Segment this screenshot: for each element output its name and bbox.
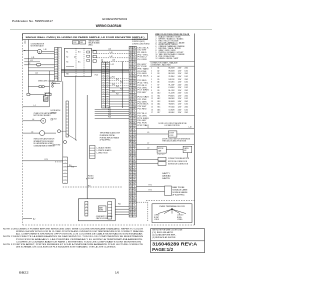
svg-text:BK: BK — [134, 122, 136, 124]
svg-text:12: 12 — [156, 58, 158, 60]
svg-text:19: 19 — [130, 186, 132, 188]
svg-text:120V: 120V — [178, 98, 182, 100]
svg-text:BU: BU — [134, 57, 136, 59]
svg-text:BN: BN — [134, 118, 136, 120]
svg-text:P3: P3 — [130, 122, 132, 124]
svg-text:16: 16 — [151, 109, 153, 111]
svg-text:RD: RD — [107, 77, 109, 79]
svg-text:WH: WH — [107, 102, 109, 104]
svg-text:HL-250F: HL-250F — [169, 84, 175, 86]
svg-text:12: 12 — [130, 64, 132, 66]
svg-text:BR-3000W: BR-3000W — [169, 70, 175, 72]
svg-text:L-4 RED / ROJO: L-4 RED / ROJO — [97, 153, 109, 155]
svg-text:RB: RB — [66, 74, 68, 76]
svg-text:L2 BLK: L2 BLK — [154, 219, 159, 221]
svg-text:SEE NOTE FOR WIRE COLOR CODE: SEE NOTE FOR WIRE COLOR CODE — [152, 230, 182, 232]
svg-text:P-36: P-36 — [112, 91, 115, 93]
svg-text:GREEN / VERDE / VERT: GREEN / VERDE / VERT — [159, 58, 179, 60]
svg-text:YL: YL — [134, 186, 136, 188]
svg-text:WH: WH — [133, 87, 136, 89]
svg-text:L-50: L-50 — [108, 48, 111, 50]
svg-text:P-6: P-6 — [71, 167, 74, 169]
svg-text:B11: B11 — [158, 95, 161, 97]
svg-text:WIRING DIAGRAM: WIRING DIAGRAM — [96, 24, 122, 28]
svg-text:YL: YL — [134, 205, 136, 207]
svg-text:19: 19 — [130, 172, 132, 174]
svg-text:B1: B1 — [158, 68, 160, 70]
svg-text:BK: BK — [134, 160, 136, 162]
svg-text:44: 44 — [130, 111, 132, 113]
svg-text:DLM-120V: DLM-120V — [169, 79, 175, 81]
svg-text:L-17: L-17 — [37, 66, 40, 68]
svg-text:B2: B2 — [130, 169, 132, 171]
svg-text:15: 15 — [151, 106, 153, 108]
svg-text:120V: 120V — [178, 90, 182, 92]
svg-text:81: 81 — [130, 188, 132, 190]
svg-text:BK: BK — [134, 104, 136, 106]
svg-text:13: 13 — [151, 101, 153, 103]
svg-text:SB-3400W: SB-3400W — [169, 101, 175, 103]
svg-text:L-61: L-61 — [110, 52, 113, 54]
svg-text:(IF EQUIPPED): (IF EQUIPPED) — [100, 140, 111, 142]
svg-text:MOTEUR DE CONVECTION: MOTEUR DE CONVECTION — [168, 164, 189, 166]
svg-text:L1 RED: L1 RED — [154, 215, 160, 217]
svg-text:P-34: P-34 — [108, 112, 111, 114]
svg-text:CV-350W: CV-350W — [169, 109, 176, 111]
svg-text:LOCKED POSITION: LOCKED POSITION — [165, 125, 181, 127]
svg-text:BN: BN — [134, 155, 136, 157]
svg-text:P-31: P-31 — [116, 79, 119, 81]
svg-text:WH: WH — [133, 181, 136, 183]
svg-text:P4 ORN: P4 ORN — [138, 59, 147, 61]
svg-text:12: 12 — [130, 205, 132, 207]
svg-text:WH: WH — [107, 75, 109, 77]
svg-text:CONTROL DEL HORNO: CONTROL DEL HORNO — [132, 43, 150, 45]
svg-text:L-5: L-5 — [147, 132, 149, 134]
svg-text:N WHT: N WHT — [154, 217, 159, 219]
svg-text:P24 WHT: P24 WHT — [138, 106, 147, 108]
svg-text:P-9: P-9 — [69, 165, 72, 167]
svg-text:WIRING SHOWN WITH DOOR IN CLOS: WIRING SHOWN WITH DOOR IN CLOSED POSITIO… — [16, 230, 145, 233]
svg-text:81: 81 — [130, 132, 132, 134]
svg-text:P-61: P-61 — [118, 203, 121, 205]
svg-text:P15 BLU: P15 BLU — [138, 85, 147, 87]
svg-text:DES SCHEMAS. LES COULEURS DE F: DES SCHEMAS. LES COULEURS DE FILS INDIQU… — [16, 246, 117, 249]
svg-text:YL: YL — [134, 92, 136, 94]
svg-text:L-7: L-7 — [147, 143, 149, 145]
svg-text:P2 YEL: P2 YEL — [138, 54, 150, 56]
svg-text:L-12: L-12 — [35, 73, 38, 75]
svg-text:WH: WH — [133, 49, 136, 51]
svg-text:81: 81 — [130, 89, 132, 91]
svg-text:P18 GRY: P18 GRY — [138, 92, 147, 94]
svg-text:81: 81 — [130, 104, 132, 106]
svg-text:P3 BLU: P3 BLU — [138, 57, 147, 59]
svg-text:P16 ORN: P16 ORN — [138, 87, 147, 89]
svg-text:YL: YL — [134, 129, 136, 131]
svg-text:P-9 WHT: P-9 WHT — [88, 178, 94, 180]
svg-text:P3: P3 — [130, 179, 132, 181]
svg-text:P-35: P-35 — [120, 89, 123, 91]
svg-text:B2: B2 — [130, 183, 132, 185]
svg-text:RD: RD — [107, 95, 109, 97]
svg-text:17: 17 — [151, 112, 153, 114]
svg-text:240V: 240V — [178, 101, 182, 103]
svg-text:81: 81 — [130, 146, 132, 148]
svg-text:12: 12 — [130, 148, 132, 150]
svg-text:BN: BN — [134, 174, 136, 176]
svg-text:CONTROL (EOC): CONTROL (EOC) — [132, 41, 145, 43]
svg-text:P28 ORN: P28 ORN — [138, 115, 147, 117]
svg-text:P10 GRN: P10 GRN — [138, 73, 147, 75]
svg-text:P-37: P-37 — [116, 93, 119, 95]
svg-text:P21 PNK: P21 PNK — [138, 99, 147, 101]
svg-text:L-31: L-31 — [31, 57, 34, 59]
svg-text:MOTOR: MOTOR — [158, 148, 163, 150]
svg-text:120V: 120V — [178, 70, 182, 72]
svg-text:RD: RD — [107, 104, 109, 106]
svg-text:WH: WH — [133, 162, 136, 164]
svg-text:WH: WH — [133, 143, 136, 145]
svg-text:19: 19 — [130, 129, 132, 131]
svg-text:BN: BN — [134, 136, 136, 138]
svg-text:44: 44 — [130, 54, 132, 56]
svg-text:SINGLE WALL OVEN ( EL HORNO DE: SINGLE WALL OVEN ( EL HORNO DE PARED SIM… — [26, 36, 145, 39]
svg-text:ELECTRONIC OVEN: ELECTRONIC OVEN — [132, 39, 148, 41]
svg-text:B2: B2 — [130, 141, 132, 143]
svg-text:12: 12 — [130, 49, 132, 51]
svg-text:120V: 120V — [178, 73, 182, 75]
svg-text:BK: BK — [134, 198, 136, 200]
svg-text:ALL COMPONENTS SHOWN IN OFF PO: ALL COMPONENTS SHOWN IN OFF POSITION. LO… — [16, 233, 144, 236]
svg-text:PAGE:1/2: PAGE:1/2 — [152, 247, 174, 252]
svg-text:44: 44 — [130, 167, 132, 169]
svg-text:B13: B13 — [158, 101, 161, 103]
svg-text:P31 PUR: P31 PUR — [138, 123, 147, 125]
svg-text:BU: BU — [134, 169, 136, 171]
svg-text:BK-2500W: BK-2500W — [169, 68, 175, 70]
svg-text:B2: B2 — [130, 85, 132, 87]
svg-text:L-63: L-63 — [112, 60, 115, 62]
svg-text:19: 19 — [130, 101, 132, 103]
svg-text:14: 14 — [151, 104, 153, 106]
svg-text:P-34: P-34 — [116, 86, 119, 88]
svg-text:81: 81 — [130, 118, 132, 120]
svg-text:ML-120V: ML-120V — [169, 90, 175, 92]
svg-text:BU: BU — [107, 98, 109, 100]
svg-text:B2: B2 — [130, 212, 132, 214]
svg-text:DK2 WHT: DK2 WHT — [138, 50, 147, 52]
svg-text:P29 BRN: P29 BRN — [138, 118, 149, 120]
svg-text:K2: K2 — [66, 57, 68, 59]
svg-text:K1: K1 — [66, 52, 68, 54]
svg-text:HORN: HORN — [99, 210, 103, 212]
svg-text:240V: 240V — [178, 84, 182, 86]
svg-text:DOOR LOCK SWITCH SHOWN IN: DOOR LOCK SWITCH SHOWN IN — [162, 138, 190, 140]
svg-text:GD-BLK: GD-BLK — [169, 112, 175, 114]
svg-text:L-10: L-10 — [189, 127, 192, 129]
svg-text:L-1: L-1 — [147, 127, 149, 129]
svg-text:BK: BK — [134, 141, 136, 143]
svg-text:BU: BU — [134, 75, 136, 77]
svg-text:WH: WH — [107, 93, 109, 95]
svg-text:BK: BK — [107, 81, 109, 83]
svg-text:44: 44 — [130, 125, 132, 127]
svg-text:L2 NEG: L2 NEG — [177, 219, 183, 221]
svg-text:P7 PUR: P7 PUR — [138, 66, 147, 68]
svg-text:NOTE 1 DISCONNECT POWER BEFOR: NOTE 1 DISCONNECT POWER BEFORE SERVICING… — [3, 227, 144, 230]
svg-text:10: 10 — [151, 93, 153, 95]
svg-text:P-71: P-71 — [149, 185, 152, 187]
svg-text:CF-2BLK: CF-2BLK — [169, 76, 175, 78]
svg-text:12: 12 — [130, 106, 132, 108]
svg-text:P3: P3 — [130, 80, 132, 82]
svg-text:L-4: L-4 — [32, 119, 34, 121]
svg-text:120V: 120V — [178, 95, 182, 97]
svg-text:B15: B15 — [158, 106, 161, 108]
svg-text:SWITCH: SWITCH — [51, 112, 57, 114]
svg-text:NOTE 2 DESCONECTE LA ENERGIA: NOTE 2 DESCONECTE LA ENERGIA ANTES DE DA… — [3, 235, 144, 238]
svg-text:P1 RED: P1 RED — [138, 52, 147, 54]
svg-text:P-38: P-38 — [108, 117, 111, 119]
svg-text:WH: WH — [133, 125, 136, 127]
svg-text:GY: GY — [133, 139, 135, 141]
svg-text:L-52: L-52 — [111, 64, 114, 66]
svg-text:GY: GY — [133, 64, 135, 66]
svg-text:YL: YL — [134, 148, 136, 150]
svg-text:81: 81 — [130, 75, 132, 77]
svg-text:P-36: P-36 — [108, 114, 111, 116]
svg-text:12: 12 — [130, 134, 132, 136]
svg-text:BU: BU — [134, 94, 136, 96]
svg-text:P-32: P-32 — [108, 108, 111, 110]
svg-text:P23 BLK: P23 BLK — [138, 104, 149, 106]
svg-text:44: 44 — [130, 82, 132, 84]
svg-text:DK1 BLK: DK1 BLK — [138, 47, 149, 49]
svg-text:GY: GY — [133, 176, 135, 178]
svg-text:P9 PNK: P9 PNK — [138, 71, 147, 73]
svg-text:B3: B3 — [158, 73, 160, 75]
svg-text:P3: P3 — [130, 207, 132, 209]
svg-text:BU: BU — [134, 113, 136, 115]
svg-text:OVEN TERMINAL BLOCK: OVEN TERMINAL BLOCK — [159, 205, 186, 208]
svg-text:44: 44 — [130, 139, 132, 141]
svg-text:INTERRUPTOR DE SEGURO: INTERRUPTOR DE SEGURO — [34, 141, 55, 143]
svg-text:L-30: L-30 — [44, 49, 47, 51]
svg-text:P-33: P-33 — [112, 84, 115, 86]
svg-text:PS-BLK: PS-BLK — [169, 95, 175, 97]
svg-text:RD: RD — [107, 86, 109, 88]
svg-text:BK: BK — [107, 91, 109, 93]
svg-text:BK: BK — [134, 85, 136, 87]
svg-text:44: 44 — [130, 68, 132, 70]
svg-text:B2: B2 — [130, 71, 132, 73]
svg-text:WH: WH — [133, 106, 136, 108]
svg-text:RL2: RL2 — [80, 42, 83, 44]
svg-text:BN: BN — [134, 212, 136, 214]
svg-text:YL: YL — [134, 73, 136, 75]
svg-text:12: 12 — [151, 98, 153, 100]
svg-text:B2: B2 — [130, 127, 132, 129]
svg-text:P14 YEL: P14 YEL — [138, 83, 150, 85]
svg-text:BU: BU — [134, 151, 136, 153]
svg-text:L-9: L-9 — [147, 148, 149, 150]
svg-text:P17 BRN: P17 BRN — [138, 90, 149, 92]
svg-text:THE UNLOCKED POSITION: THE UNLOCKED POSITION — [162, 140, 186, 142]
svg-text:BU: BU — [107, 70, 109, 72]
svg-text:BK: BK — [134, 47, 136, 49]
svg-text:(RB1): (RB1) — [89, 45, 94, 47]
svg-text:P6 GRY: P6 GRY — [138, 64, 147, 66]
svg-text:K3: K3 — [66, 62, 68, 64]
svg-text:SINGLE OVEN: SINGLE OVEN — [89, 40, 101, 42]
svg-text:WH: WH — [133, 68, 136, 70]
svg-text:P22 GRN: P22 GRN — [138, 101, 147, 103]
svg-text:12: 12 — [130, 190, 132, 192]
svg-text:P25 RED: P25 RED — [138, 108, 147, 110]
svg-text:12: 12 — [130, 92, 132, 94]
svg-text:BN: BN — [134, 61, 136, 63]
svg-text:BN: BN — [134, 193, 136, 195]
svg-text:BU: BU — [134, 132, 136, 134]
svg-text:11: 11 — [151, 95, 153, 97]
svg-text:P3: P3 — [130, 136, 132, 138]
svg-text:3 4: 3 4 — [24, 43, 26, 45]
svg-text:P13 RED: P13 RED — [138, 80, 147, 82]
svg-text:12: 12 — [130, 162, 132, 164]
svg-text:P-8 BLK: P-8 BLK — [88, 176, 94, 178]
svg-text:GY: GY — [133, 101, 135, 103]
svg-text:44: 44 — [130, 153, 132, 155]
svg-text:1/6: 1/6 — [115, 270, 119, 274]
svg-text:120V: 120V — [178, 112, 182, 114]
svg-text:B2: B2 — [130, 155, 132, 157]
svg-text:P11 BLK: P11 BLK — [138, 76, 149, 78]
svg-text:BK: BK — [134, 66, 136, 68]
svg-text:44: 44 — [130, 195, 132, 197]
svg-text:POSICION DE APAGADO. LAS PUERT: POSICION DE APAGADO. LAS PUERTAS CERRADA… — [16, 238, 144, 241]
svg-text:UNLOCK: UNLOCK — [51, 119, 57, 121]
svg-text:L-1: L-1 — [34, 105, 36, 107]
svg-text:B9: B9 — [158, 90, 160, 92]
svg-text:WH: WH — [107, 84, 109, 86]
svg-text:120V: 120V — [178, 87, 182, 89]
svg-text:81: 81 — [130, 47, 132, 49]
svg-text:240V: 240V — [178, 93, 182, 95]
svg-text:P-13: P-13 — [95, 75, 98, 77]
svg-text:MOTOR DEL SEGURO: MOTOR DEL SEGURO — [34, 115, 52, 117]
svg-text:BK: BK — [107, 63, 109, 65]
svg-text:DLS-BLK: DLS-BLK — [169, 82, 175, 84]
svg-text:240V: 240V — [178, 76, 182, 78]
svg-text:GY: GY — [133, 82, 135, 84]
svg-text:COUPER LE COURANT AVANT DE FAI: COUPER LE COURANT AVANT DE FAIRE L ENTRE… — [16, 240, 142, 243]
svg-text:GY: GY — [133, 195, 135, 197]
svg-text:120V: 120V — [178, 106, 182, 108]
svg-text:P3: P3 — [130, 151, 132, 153]
svg-text:P3: P3 — [130, 193, 132, 195]
svg-text:YL: YL — [134, 54, 136, 56]
svg-text:BU: BU — [134, 188, 136, 190]
svg-text:12: 12 — [130, 78, 132, 80]
svg-text:L1 ROJO: L1 ROJO — [177, 215, 184, 217]
svg-text:CU2: CU2 — [73, 42, 76, 44]
svg-text:RD: RD — [107, 68, 109, 70]
svg-text:TB-BLK: TB-BLK — [169, 104, 175, 106]
svg-text:L-62: L-62 — [110, 56, 113, 58]
svg-text:NOTE 3 POSITION ARRET, PORTES: NOTE 3 POSITION ARRET, PORTES FERMEES ET… — [3, 243, 144, 246]
svg-text:12: 12 — [130, 176, 132, 178]
svg-text:TP-1000: TP-1000 — [169, 106, 175, 108]
svg-text:RB-240V: RB-240V — [169, 98, 175, 100]
svg-text:81: 81 — [130, 160, 132, 162]
svg-text:19: 19 — [130, 87, 132, 89]
svg-text:L-6: L-6 — [31, 131, 33, 133]
svg-text:BB22: BB22 — [19, 270, 29, 274]
svg-text:BK: BK — [134, 179, 136, 181]
svg-text:240V: 240V — [178, 68, 182, 70]
svg-text:BU: BU — [107, 88, 109, 90]
svg-text:P3: P3 — [130, 108, 132, 110]
svg-text:OL-40W: OL-40W — [169, 93, 176, 95]
svg-text:P3: P3 — [130, 52, 132, 54]
svg-text:19: 19 — [130, 214, 132, 216]
svg-text:81: 81 — [130, 202, 132, 204]
svg-text:44: 44 — [130, 96, 132, 98]
svg-text:44: 44 — [130, 181, 132, 183]
svg-text:L-2: L-2 — [28, 63, 30, 65]
svg-text:19: 19 — [130, 143, 132, 145]
svg-text:B2: B2 — [130, 57, 132, 59]
svg-text:YL: YL — [134, 111, 136, 113]
svg-text:P3: P3 — [130, 94, 132, 96]
svg-text:240V: 240V — [178, 109, 182, 111]
svg-text:LOCK: LOCK — [169, 135, 173, 137]
svg-text:44: 44 — [130, 209, 132, 211]
svg-text:1 2: 1 2 — [24, 41, 26, 43]
svg-text:P-32: P-32 — [120, 81, 123, 83]
svg-text:WH: WH — [107, 65, 109, 67]
svg-text:81: 81 — [130, 61, 132, 63]
svg-text:81: 81 — [130, 174, 132, 176]
svg-text:19: 19 — [130, 115, 132, 117]
svg-text:BU: BU — [107, 79, 109, 81]
svg-text:B5: B5 — [158, 79, 160, 81]
svg-text:B7: B7 — [158, 84, 160, 86]
svg-text:120V: 120V — [178, 104, 182, 106]
svg-text:P-30: P-30 — [112, 77, 115, 79]
svg-text:B2: B2 — [130, 113, 132, 115]
svg-text:P3: P3 — [130, 165, 132, 167]
svg-text:P-72: P-72 — [149, 189, 152, 191]
svg-text:WH: WH — [133, 200, 136, 202]
svg-text:GY: GY — [133, 214, 135, 216]
svg-text:B2: B2 — [130, 99, 132, 101]
svg-text:19: 19 — [130, 158, 132, 160]
svg-text:Publication No. 5995544617: Publication No. 5995544617 — [12, 19, 53, 23]
svg-text:120V: 120V — [178, 79, 182, 81]
svg-text:BU: BU — [134, 207, 136, 209]
svg-text:GY: GY — [133, 158, 135, 160]
svg-text:L-15: L-15 — [30, 60, 33, 62]
svg-text:19: 19 — [130, 200, 132, 202]
svg-text:(IF EQUIPPED): (IF EQUIPPED) — [172, 194, 184, 196]
svg-text:120V: 120V — [178, 82, 182, 84]
svg-text:BN: BN — [134, 99, 136, 101]
svg-text:P-70: P-70 — [45, 159, 48, 161]
svg-text:BB-1200W: BB-1200W — [169, 73, 175, 75]
svg-text:B17: B17 — [158, 112, 161, 114]
